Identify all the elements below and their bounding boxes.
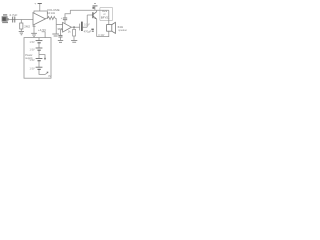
wire amp2 lower input — [60, 29, 62, 31]
svg-text:0·3W: 0·3W — [98, 33, 105, 37]
capacitor C6 electrolytic — [79, 24, 81, 31]
tap arrow — [44, 58, 46, 61]
label near emitter — [91, 29, 93, 30]
svg-text:speaker: speaker — [118, 29, 127, 32]
wire input to op-amp — [7, 19, 33, 21]
base riser wire — [86, 15, 88, 27]
op-amp output wire — [45, 17, 47, 19]
collector wire to rail — [96, 10, 98, 11]
capacitor C5 — [63, 17, 67, 19]
wire cell3-cell4 — [38, 61, 40, 67]
svg-text:10 kΩ: 10 kΩ — [47, 11, 56, 15]
capacitor C1 — [12, 17, 14, 23]
transistor TR1 — [93, 12, 97, 20]
battery cell B2 — [36, 47, 43, 49]
bottom arrow — [45, 72, 47, 74]
wire under op-amp to ground — [33, 25, 35, 33]
svg-text:4·7µF: 4·7µF — [9, 13, 17, 17]
resistor R1 — [20, 23, 23, 29]
resistor R2 — [73, 27, 75, 29]
svg-text:1·5V: 1·5V — [30, 59, 35, 62]
wire down to C4 — [59, 30, 61, 36]
svg-text:470µF: 470µF — [84, 29, 92, 33]
potentiometer VR1 zigzag — [48, 16, 57, 19]
switch S1 on rail — [92, 4, 97, 11]
supply wire to op-amp — [39, 3, 41, 11]
ground G3 — [52, 34, 59, 36]
svg-text:0V: 0V — [48, 74, 51, 78]
wire rail drop to C5 — [65, 10, 70, 17]
feedback wire over op-amp — [34, 11, 47, 19]
wire battery positive out — [42, 32, 46, 38]
battery cell B3 — [36, 58, 43, 60]
wire C4 to ground — [59, 37, 61, 40]
wire R1 to ground — [20, 29, 22, 31]
emitter wire down — [96, 19, 98, 37]
svg-text:+: + — [34, 2, 36, 6]
ground G4 — [58, 41, 63, 43]
wire pot down — [55, 18, 57, 33]
svg-text:2M2: 2M2 — [24, 25, 30, 29]
wire C6 to base riser — [83, 26, 88, 28]
base wire — [87, 14, 92, 16]
svg-text:1·5V: 1·5V — [30, 68, 35, 71]
wire junction to R1 — [20, 20, 22, 24]
svg-text:1·5V: 1·5V — [30, 49, 35, 52]
battery box — [24, 38, 51, 79]
tap wire — [39, 55, 45, 59]
wire R2 to ground — [73, 36, 75, 40]
capacitor C4 — [58, 34, 62, 36]
svg-text:1·5V: 1·5V — [30, 41, 35, 44]
loudspeaker LS1 — [107, 22, 116, 33]
wire speaker bottom — [97, 31, 109, 36]
wire cell1-cell2 — [38, 43, 40, 48]
amp2 output wire — [71, 26, 79, 28]
wire pot tap to amp2 input — [56, 24, 62, 26]
wire cell4 to bottom — [39, 69, 45, 74]
top supply rail — [70, 9, 109, 11]
wire box top to cell1 — [38, 38, 40, 41]
junction dot — [73, 26, 75, 28]
ground G5 — [71, 40, 77, 42]
transistor note box — [100, 7, 113, 20]
battery cell B4 — [36, 66, 43, 68]
wire C5 to amp2 top — [64, 20, 66, 24]
amplifier U2 triangle — [63, 22, 72, 32]
battery cell B1 — [36, 40, 43, 42]
op-amp U1 — [33, 13, 45, 25]
input jack J1 — [2, 14, 9, 23]
rail right drop to speaker — [108, 10, 110, 24]
wire cell2 to tap — [38, 50, 40, 58]
ground G2 — [31, 33, 37, 36]
supply bar — [38, 3, 42, 5]
ground G1 — [19, 31, 24, 34]
